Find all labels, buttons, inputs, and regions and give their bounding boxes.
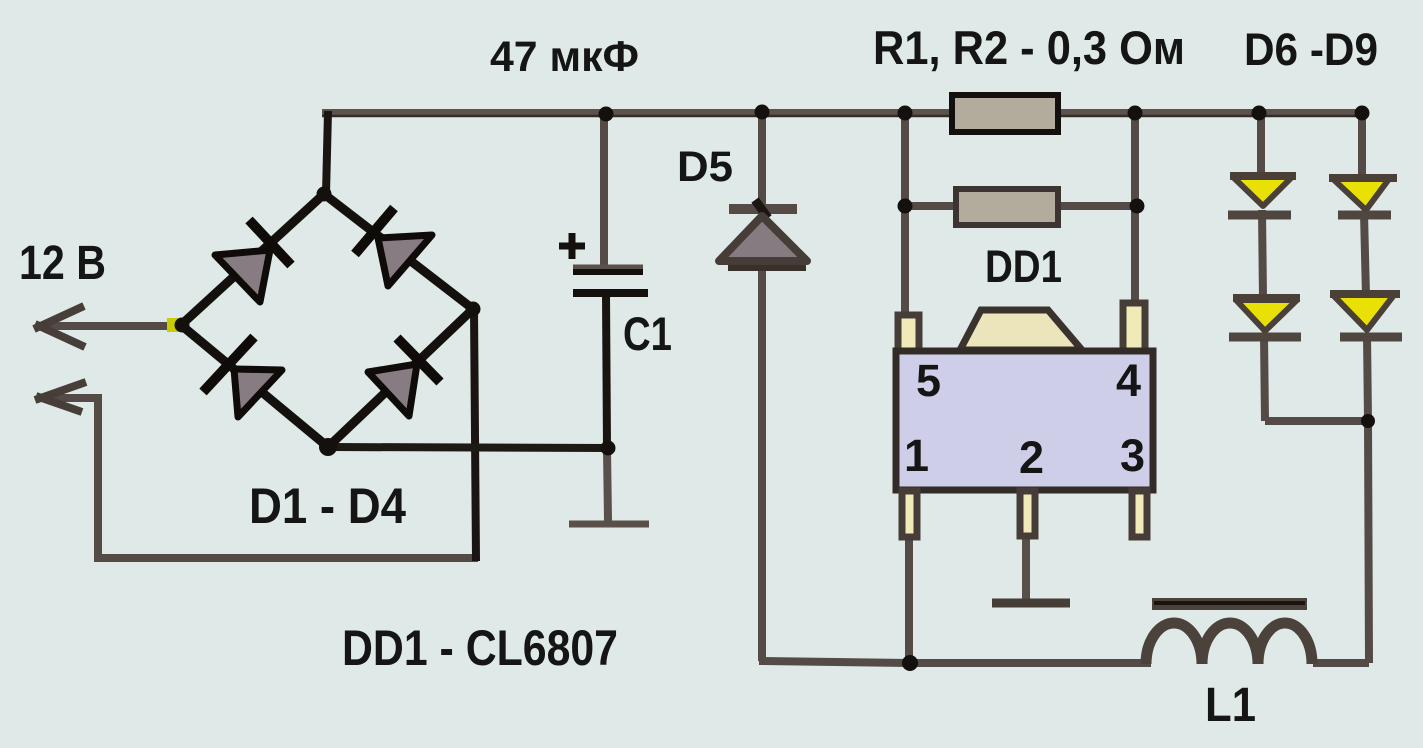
- ground (C1): [569, 521, 649, 528]
- diode D1 (bridge top-left): [215, 220, 291, 302]
- wire pin1 to bottom bus: [905, 536, 913, 663]
- capacitor C1 plates: [573, 267, 648, 293]
- pin 1 stub: [902, 491, 917, 537]
- IC tab trapezoid: [960, 310, 1082, 350]
- node bridge top: [317, 187, 332, 202]
- IC DD1 body: [896, 303, 1153, 537]
- node top LED right: [1355, 106, 1370, 121]
- wire led left col seg1: [1257, 112, 1265, 177]
- LED D8: [1229, 298, 1301, 337]
- wire top-left corner to bridge top: [326, 111, 328, 194]
- node bridge left: [167, 318, 178, 332]
- LED D7: [1329, 178, 1397, 215]
- wire bridge right to bottom rail: [474, 309, 476, 561]
- ground (pin2): [992, 599, 1070, 608]
- wire bridge edge left-bottom: [181, 325, 328, 447]
- IC rectangle: [896, 351, 1153, 490]
- diode D4 (bridge bottom-right): [368, 338, 440, 416]
- svg-text:DD1: DD1: [985, 241, 1062, 292]
- wire D5 bottom down: [758, 264, 766, 661]
- LED D6: [1228, 176, 1296, 215]
- wire R right vertical: [1131, 112, 1139, 305]
- node LED bottom: [1361, 414, 1375, 428]
- wire D5 stem top: [758, 112, 766, 210]
- wire led left col seg2: [1262, 210, 1263, 299]
- svg-text:3: 3: [1120, 430, 1145, 481]
- wire top bus: [322, 109, 1362, 117]
- LED D9: [1330, 294, 1402, 337]
- svg-text:12 В: 12 В: [19, 237, 106, 290]
- pin 2 stub: [1020, 491, 1035, 536]
- resistor R2: [956, 189, 1058, 225]
- diode D2 (bridge top-right): [355, 208, 432, 286]
- wire R2 left lead: [905, 202, 956, 210]
- pin 3 stub: [1132, 491, 1147, 537]
- resistor R1: [952, 95, 1058, 132]
- node bridge bottom: [319, 438, 337, 456]
- svg-text:4: 4: [1116, 355, 1141, 406]
- wire led left col seg3: [1264, 335, 1265, 421]
- node top D5: [755, 105, 770, 120]
- svg-text:D5: D5: [677, 143, 733, 191]
- wire R left vertical: [901, 112, 909, 317]
- wire bottom bus D5 to L1: [759, 661, 1151, 663]
- wires group: [42, 111, 1369, 663]
- input arrow 2: [35, 382, 86, 412]
- wire input2 path: [44, 398, 478, 558]
- node C1 bottom: [601, 441, 616, 456]
- diode D5: [719, 200, 807, 268]
- wire C1 ground stem: [607, 449, 608, 521]
- inductor L1 coil: [1146, 623, 1312, 664]
- svg-text:D1 - D4: D1 - D4: [249, 478, 406, 534]
- C1 plus sign: [559, 233, 585, 259]
- wire C1 bottom to node: [606, 294, 607, 449]
- svg-text:DD1 - CL6807: DD1 - CL6807: [342, 620, 618, 676]
- junction node dots: [167, 105, 1375, 672]
- inductor L1 core bar: [1152, 598, 1307, 610]
- svg-text:D6 -D9: D6 -D9: [1244, 24, 1378, 75]
- wire led bottom link: [1265, 417, 1368, 425]
- node top R left: [898, 106, 913, 121]
- input arrow 1: [34, 306, 85, 347]
- node top R right: [1128, 106, 1143, 121]
- svg-text:L1: L1: [1205, 679, 1256, 732]
- pin 4 stub: [1123, 303, 1145, 352]
- bridge diamond edges: [181, 194, 473, 447]
- wire bridge edge bottom-right: [328, 309, 473, 447]
- wire led right col seg2: [1364, 213, 1366, 296]
- node R2 right: [1130, 199, 1145, 214]
- wire input1 horizontal: [42, 322, 181, 330]
- wire C1 stem top: [600, 112, 608, 266]
- pin 5 stub: [898, 315, 919, 352]
- wire bridge bottom to C1 node: [329, 447, 608, 448]
- svg-text:C1: C1: [623, 307, 672, 360]
- svg-text:1: 1: [904, 430, 929, 481]
- svg-text:47 мкФ: 47 мкФ: [490, 33, 639, 81]
- wire L1 right lead: [1313, 659, 1369, 667]
- wire pin2 ground stem: [1022, 535, 1030, 601]
- wire led right col seg3 down to corner: [1367, 334, 1369, 663]
- node R2 left: [898, 199, 913, 214]
- svg-text:2: 2: [1019, 432, 1044, 483]
- node bottom bus: [902, 655, 918, 671]
- diode D3 (bridge bottom-left): [203, 337, 282, 417]
- wire led right col seg1: [1358, 112, 1366, 178]
- wire bridge edge left-top: [181, 194, 324, 325]
- wire bridge edge top-right: [324, 194, 473, 309]
- svg-text:R1, R2 - 0,3 Ом: R1, R2 - 0,3 Ом: [873, 21, 1185, 74]
- node top C1: [599, 107, 614, 122]
- node bridge right: [466, 302, 481, 317]
- wire R2 right lead: [1056, 202, 1137, 210]
- node top LED left: [1252, 106, 1267, 121]
- svg-text:5: 5: [916, 355, 941, 406]
